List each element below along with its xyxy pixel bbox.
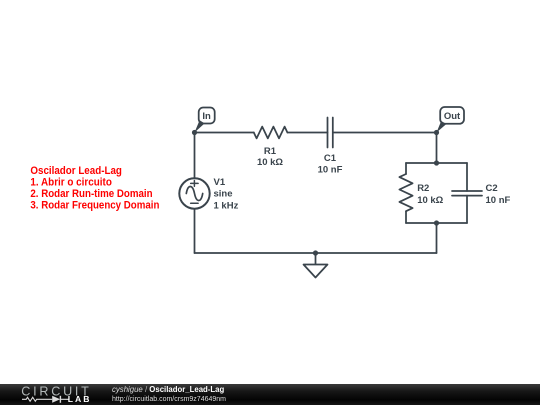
wire V1 bottom to bottom-left corner — [194, 209, 196, 254]
svg-text:In: In — [202, 111, 211, 122]
V1 plus sign — [191, 181, 198, 187]
svg-text:10 kΩ: 10 kΩ — [417, 195, 443, 206]
wire C2 top lead — [466, 163, 468, 191]
node dot ground — [313, 250, 318, 255]
V1 sine symbol — [186, 187, 202, 201]
wire bottom rail — [195, 252, 437, 254]
wire parallel block to bottom rail — [436, 223, 438, 253]
wire C2 bottom lead — [466, 196, 468, 223]
resistor R2 zigzag — [399, 174, 412, 211]
svg-text:3. Rodar Frequency Domain: 3. Rodar Frequency Domain — [30, 199, 159, 211]
svg-text:R1: R1 — [264, 146, 277, 157]
svg-text:Out: Out — [444, 111, 461, 122]
flag Out tail — [437, 121, 447, 133]
svg-text:1. Abrir o circuito: 1. Abrir o circuito — [30, 177, 112, 189]
wire C1 to Out node — [333, 132, 437, 134]
wire R2 bottom lead — [405, 211, 407, 223]
svg-text:LAB: LAB — [68, 394, 92, 404]
wire parallel block bottom rail — [406, 222, 467, 224]
svg-text:10 nF: 10 nF — [318, 165, 343, 176]
svg-text:R2: R2 — [417, 183, 429, 194]
svg-text:2. Rodar Run-time Domain: 2. Rodar Run-time Domain — [30, 188, 152, 200]
wire top-left vertical (In node to V1 top) — [194, 133, 196, 179]
svg-text:sine: sine — [214, 189, 233, 200]
svg-text:10 kΩ: 10 kΩ — [257, 157, 283, 168]
resistor R1 zigzag — [254, 127, 288, 139]
flag In box — [199, 108, 215, 124]
V1 minus sign — [191, 202, 198, 204]
flag Out box — [440, 107, 464, 124]
svg-text:10 nF: 10 nF — [486, 195, 511, 206]
svg-text:V1: V1 — [214, 177, 226, 188]
svg-text:Oscilador Lead-Lag: Oscilador Lead-Lag — [30, 165, 122, 177]
capacitor C1 plates — [328, 118, 333, 148]
svg-text:1 kHz: 1 kHz — [214, 200, 239, 211]
wire Out node down to parallel block — [436, 133, 438, 164]
node dot parallel top — [434, 160, 439, 165]
wire R2 top lead — [405, 163, 407, 174]
capacitor C2 plates — [452, 191, 482, 196]
credit text — [112, 385, 226, 404]
flag In tail — [195, 120, 205, 132]
ground triangle — [304, 265, 328, 278]
wire top rail left (In node to R1) — [195, 132, 254, 134]
node dot In — [192, 130, 197, 135]
footer bar — [0, 384, 540, 405]
CircuitLab logo — [15, 384, 100, 405]
wire R1 to C1 — [287, 132, 327, 134]
node dot parallel bottom — [434, 220, 439, 225]
node dot Out — [434, 130, 439, 135]
voltage source V1 circle — [179, 178, 209, 208]
ground stem — [315, 253, 317, 265]
wire parallel block top rail — [406, 162, 467, 164]
svg-text:C1: C1 — [324, 153, 337, 164]
svg-text:C2: C2 — [486, 183, 498, 194]
